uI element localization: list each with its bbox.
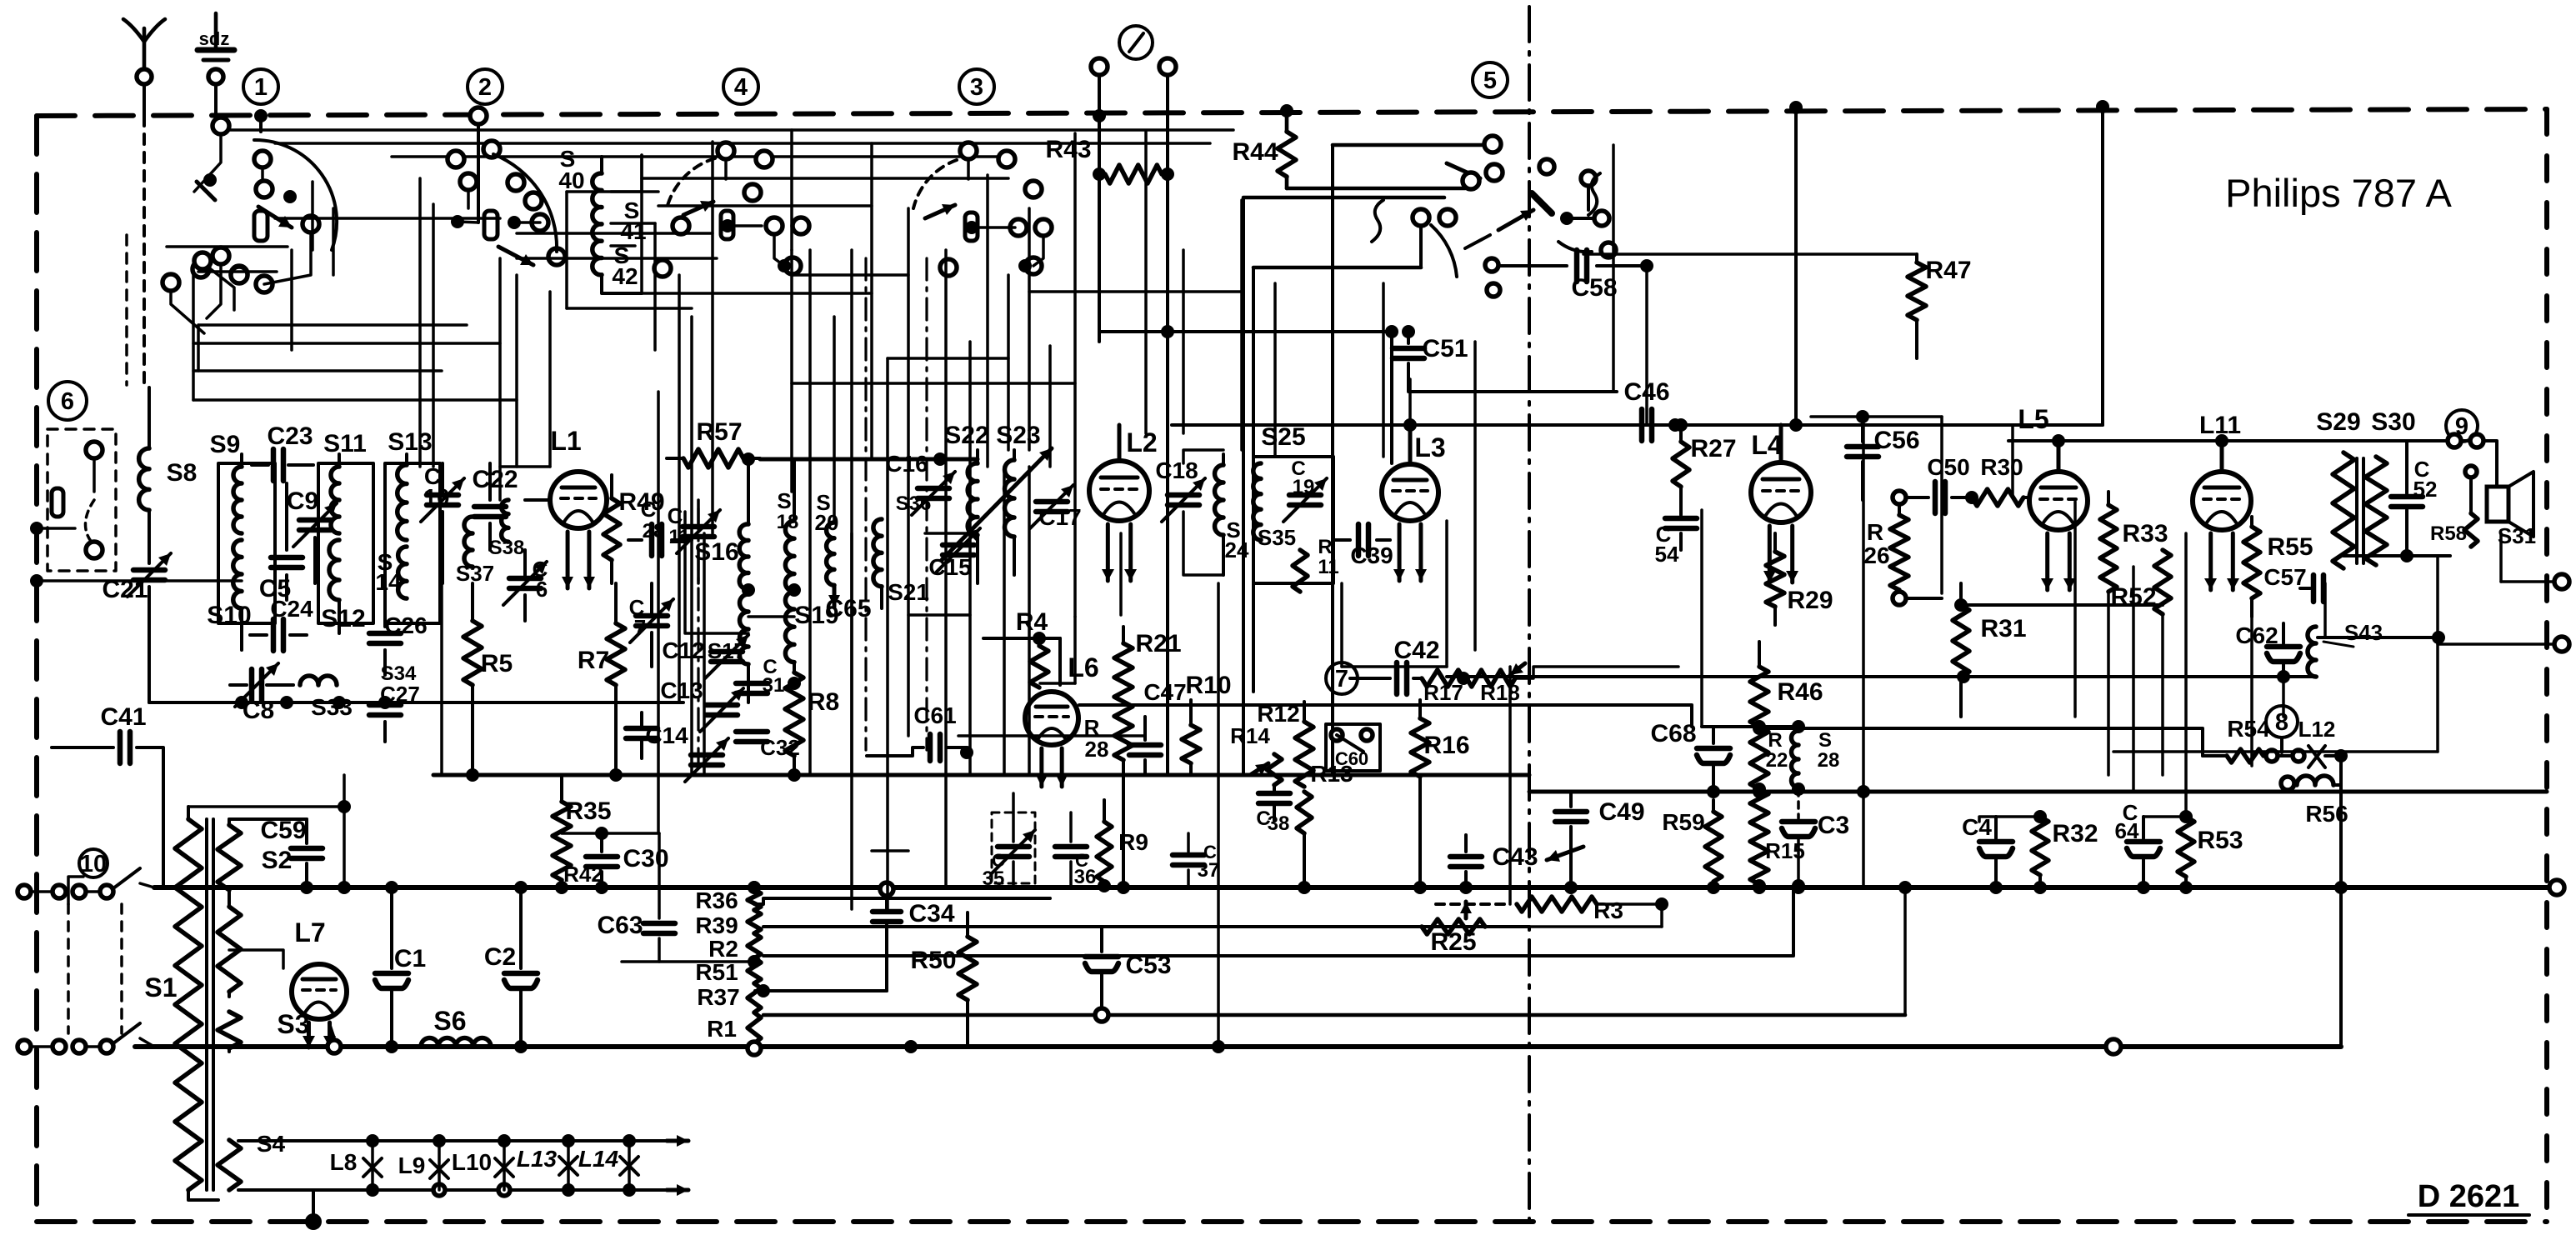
svg-text:C68: C68	[1650, 720, 1696, 747]
gang link c	[697, 508, 699, 762]
svg-text:5: 5	[1483, 67, 1497, 94]
wire run h20	[2501, 580, 2562, 583]
svg-text:19: 19	[1293, 476, 1315, 498]
svg-text:6: 6	[61, 388, 74, 415]
node 2 marker	[468, 69, 503, 104]
capacitor C22	[488, 463, 492, 500]
svg-text:R16: R16	[1423, 732, 1469, 759]
capacitor C19	[1289, 492, 1321, 498]
wire run h28	[193, 342, 500, 345]
wire HT bus	[154, 885, 2557, 890]
node 1 marker	[243, 69, 278, 104]
svg-text:R30: R30	[1980, 454, 2023, 480]
wire gnd bus	[135, 1044, 2113, 1049]
wire r18 out	[1515, 667, 1678, 678]
svg-text:R9: R9	[1118, 829, 1148, 855]
svg-text:L14: L14	[578, 1146, 619, 1172]
svg-text:2: 2	[478, 74, 492, 101]
node 8 marker	[2266, 706, 2298, 737]
svg-text:C61: C61	[913, 702, 956, 728]
wire run v15	[907, 208, 910, 736]
svg-text:L7: L7	[294, 917, 325, 947]
wire run v63	[1028, 467, 1031, 775]
capacitor C43	[1464, 835, 1468, 852]
mains terminals bottom	[18, 1040, 31, 1053]
capacitor C15	[943, 542, 974, 548]
wire run v54	[432, 204, 435, 467]
wire run v35	[1612, 145, 1615, 392]
resistor R56	[2281, 777, 2294, 790]
rotary switch S1b rotor	[484, 211, 498, 239]
wire sw3 link2	[1033, 236, 1043, 266]
svg-text:52: 52	[2413, 477, 2438, 502]
lamp L8	[371, 1141, 374, 1190]
svg-text:C57: C57	[2263, 564, 2306, 590]
tube L1	[550, 472, 607, 528]
wire run h16	[1040, 682, 1075, 685]
svg-text:C41: C41	[100, 703, 146, 731]
rotary switch S1a contacts	[213, 117, 229, 134]
svg-text:54: 54	[1655, 542, 1679, 567]
transformer S1 core	[205, 819, 208, 1190]
resistor R49	[610, 475, 613, 498]
svg-text:64: 64	[2115, 818, 2139, 843]
shield box S9 S10	[218, 463, 275, 623]
wire node1 drop	[259, 116, 263, 132]
svg-text:S16: S16	[694, 538, 738, 566]
svg-text:28: 28	[643, 520, 665, 542]
switch S1f box	[48, 429, 116, 571]
capacitor C34	[885, 889, 888, 908]
svg-text:C2: C2	[484, 943, 516, 971]
wire run h5	[792, 273, 908, 277]
wire L1 grid	[525, 498, 550, 502]
svg-text:R21: R21	[1135, 630, 1181, 657]
resistor R29	[1773, 533, 1777, 552]
wire sw2 link2	[467, 190, 470, 208]
wire run v16	[944, 250, 948, 886]
wire gnd return	[2339, 756, 2343, 1047]
capacitor C66	[626, 726, 658, 732]
svg-text:C58: C58	[1571, 274, 1617, 302]
resistor R4	[1038, 638, 1041, 646]
wire run h30	[193, 398, 517, 402]
wire run v2	[498, 258, 502, 500]
antenna	[143, 28, 147, 70]
wire tap r51	[755, 989, 887, 992]
svg-text:C9: C9	[287, 487, 318, 515]
wire run v8	[711, 142, 714, 533]
svg-text:C42: C42	[1393, 637, 1439, 664]
svg-text:24: 24	[1225, 537, 1249, 562]
svg-text:S36: S36	[896, 492, 932, 515]
svg-text:C53: C53	[1125, 952, 1171, 979]
resistor R21	[1122, 627, 1125, 643]
svg-text:C51: C51	[1422, 335, 1468, 362]
coil S40 S41 S42	[593, 173, 602, 275]
wire run h11	[500, 465, 550, 468]
svg-text:7: 7	[634, 615, 646, 640]
svg-text:C49: C49	[1598, 798, 1644, 826]
coil S24	[1222, 454, 1225, 465]
capacitor C23	[252, 463, 268, 467]
wire run h19	[2438, 642, 2562, 646]
capacitor C38	[1258, 791, 1290, 797]
wire sw2 link1	[514, 221, 540, 224]
wire tap r2 long	[763, 886, 1793, 956]
svg-text:R18: R18	[1480, 680, 1520, 705]
svg-text:L6: L6	[1068, 652, 1098, 682]
wire run v43	[2161, 614, 2164, 775]
wire run h3	[275, 217, 500, 220]
resistor R57	[667, 457, 683, 460]
wire run v44	[2250, 617, 2253, 766]
svg-text:7: 7	[1335, 666, 1348, 692]
capacitor C1	[390, 887, 393, 968]
svg-text:10: 10	[80, 851, 107, 877]
wire run v64	[2132, 567, 2135, 792]
wire sw5 top rail	[1333, 143, 1489, 147]
svg-text:S25: S25	[1261, 423, 1305, 451]
resistor R17	[1422, 670, 1463, 687]
svg-text:1: 1	[254, 74, 268, 101]
svg-text:R14: R14	[1230, 723, 1270, 748]
coil S13	[405, 454, 408, 465]
svg-text:S17: S17	[708, 638, 746, 663]
wire L7 out	[329, 1023, 334, 1047]
resistor R5	[471, 583, 474, 621]
svg-text:18: 18	[777, 511, 799, 533]
wire run v4	[548, 292, 552, 467]
wire avc rail	[1079, 705, 1692, 727]
svg-text:C16: C16	[885, 451, 928, 477]
resistor R33	[2107, 492, 2110, 505]
wire run v57	[653, 223, 657, 350]
wire tap r36	[754, 898, 1050, 904]
wire sw5 r44 rail	[1287, 187, 1465, 191]
svg-text:R57: R57	[696, 418, 742, 446]
capacitor C18	[1168, 492, 1199, 498]
circuit 8 row	[2203, 754, 2227, 757]
capacitor C52	[2405, 441, 2408, 493]
resistor R16	[1418, 700, 1422, 718]
coil S9	[240, 454, 243, 467]
wire run h31	[1811, 415, 1942, 418]
wire run h14	[908, 613, 970, 617]
transformer S2 winding	[228, 819, 231, 825]
node 10 marker	[79, 849, 108, 877]
capacitor C58	[1500, 264, 1567, 267]
svg-text:R44: R44	[1232, 138, 1278, 166]
node 7 marker	[1326, 662, 1358, 694]
capacitor C61	[867, 747, 923, 756]
svg-text:S37: S37	[456, 561, 494, 586]
svg-text:8: 8	[2275, 709, 2288, 736]
resistor R8	[785, 672, 803, 756]
node 9 marker	[2446, 410, 2478, 442]
wire run v27	[1240, 200, 1243, 450]
resistor R32	[2032, 817, 2048, 875]
svg-text:S: S	[777, 488, 791, 513]
wire run v5	[657, 392, 660, 833]
svg-text:R3: R3	[1593, 897, 1623, 923]
resistor R15	[1750, 789, 1768, 884]
coil S23	[1013, 450, 1016, 460]
svg-text:C15: C15	[928, 554, 971, 580]
rotary switch S1a arc	[254, 140, 337, 250]
svg-text:S: S	[1818, 729, 1832, 752]
capacitor C49	[1569, 793, 1573, 807]
transformer S3 winding	[218, 1012, 241, 1048]
svg-text:R58: R58	[2430, 522, 2467, 545]
resistor R37	[748, 983, 761, 1012]
node 5 marker	[1473, 62, 1508, 97]
svg-text:22: 22	[1766, 749, 1788, 772]
svg-text:L10: L10	[452, 1149, 492, 1175]
wire run h27	[198, 323, 467, 327]
tube L2	[1089, 461, 1149, 521]
svg-text:R: R	[1768, 729, 1782, 752]
wire run v38	[1862, 417, 1865, 886]
svg-text:C62: C62	[2235, 622, 2278, 648]
wire run h24	[517, 257, 717, 260]
capacitor C9	[299, 517, 331, 523]
wire sw3 drop	[967, 159, 970, 179]
inductor L12	[2263, 754, 2290, 757]
capacitor C13	[706, 702, 738, 708]
wire s1 top	[188, 805, 344, 808]
svg-text:S12: S12	[321, 605, 365, 632]
rotary switch S1c contacts	[718, 142, 734, 159]
wire run v47	[2499, 533, 2503, 582]
wire sw6 entry	[37, 527, 75, 530]
tube L3	[1382, 464, 1438, 521]
wire c63 base	[622, 960, 754, 963]
terminal b	[1159, 58, 1176, 75]
wire run v11	[833, 317, 836, 522]
transformer S29 S30	[2333, 452, 2354, 568]
resistor R53	[2178, 817, 2194, 877]
wire run v18	[986, 175, 989, 467]
wire l4 top	[1794, 107, 1798, 425]
wire left block base	[242, 701, 683, 704]
wire out top	[2008, 439, 2417, 442]
svg-text:C34: C34	[908, 900, 954, 927]
svg-text:R35: R35	[565, 797, 611, 825]
capacitor C5	[285, 483, 288, 550]
wire run v20	[1028, 208, 1031, 450]
tube L7	[292, 964, 347, 1019]
resistor R7	[614, 583, 618, 623]
svg-text:S4: S4	[257, 1131, 286, 1157]
svg-text:R27: R27	[1690, 435, 1736, 462]
svg-text:C50: C50	[1927, 454, 1969, 480]
svg-text:C59: C59	[260, 817, 306, 844]
wire run v24	[1144, 132, 1148, 433]
svg-text:C23: C23	[267, 422, 313, 450]
switch S5b	[113, 1023, 140, 1043]
gang link a	[864, 258, 867, 750]
capacitor C26	[383, 583, 387, 627]
box c18 s24	[1183, 450, 1223, 463]
svg-text:S33: S33	[311, 694, 353, 720]
resistor R10	[1189, 700, 1193, 725]
wire run v56	[640, 155, 643, 293]
resistor R35	[560, 775, 563, 802]
mains pilot symbol	[1119, 26, 1153, 59]
svg-text:R53: R53	[2197, 827, 2243, 854]
rotary switch S1c rotor	[721, 211, 733, 239]
rotary switch S1e rotor	[1532, 193, 1552, 213]
svg-text:R8: R8	[808, 688, 839, 716]
wire run v14	[886, 358, 889, 909]
svg-text:R54: R54	[2227, 716, 2270, 742]
wire run v40	[1940, 417, 1943, 593]
wire run v7	[690, 317, 693, 775]
svg-text:42: 42	[612, 263, 638, 289]
svg-text:S9: S9	[210, 431, 241, 458]
choke S6	[421, 1038, 491, 1047]
svg-text:S34: S34	[381, 662, 417, 685]
resistor R46	[1758, 642, 1761, 667]
svg-text:D 2621: D 2621	[2418, 1179, 2520, 1214]
svg-text:C47: C47	[1143, 679, 1186, 705]
node 4 marker	[723, 69, 758, 104]
capacitor C10	[427, 492, 458, 498]
tube L4	[1751, 462, 1811, 522]
capacitor C54	[1679, 510, 1683, 515]
wire run h32	[748, 615, 794, 618]
wire run v49	[197, 325, 200, 371]
capacitor C64	[2142, 817, 2145, 838]
earth terminal	[214, 13, 218, 48]
resistor R25	[1422, 919, 1485, 934]
wire run v42	[2107, 592, 2110, 775]
wire s22 s23 arrow	[942, 448, 1052, 560]
wire run v48	[192, 272, 195, 400]
svg-text:R4: R4	[1016, 608, 1048, 636]
wire run h22	[642, 177, 1008, 180]
wire sw1 drop1	[207, 264, 221, 318]
svg-text:L3: L3	[1414, 432, 1445, 462]
svg-text:S43: S43	[2344, 620, 2383, 645]
wire run h23	[167, 245, 288, 248]
rotary switch S1a rotor	[254, 211, 268, 241]
wire fb right	[2318, 636, 2438, 639]
wire run h7	[567, 307, 692, 310]
resistor R2	[748, 933, 761, 958]
wire out contacts	[2417, 439, 2447, 442]
capacitor C62	[2282, 623, 2285, 643]
svg-text:R46: R46	[1777, 678, 1823, 706]
wire run v46	[2436, 556, 2439, 752]
svg-text:S38: S38	[489, 537, 525, 559]
svg-text:C3: C3	[1818, 812, 1849, 839]
svg-text:L1: L1	[550, 426, 581, 456]
wire run h1	[567, 190, 658, 193]
rotary switch S1d contacts	[960, 142, 977, 159]
svg-text:C: C	[668, 503, 683, 528]
capacitor C12	[711, 649, 743, 655]
wire run v25	[1182, 250, 1185, 433]
svg-text:6: 6	[536, 577, 548, 602]
resistor R12	[1303, 702, 1306, 722]
wire run v23	[1119, 533, 1123, 615]
resistor R43	[1105, 165, 1162, 183]
capacitor C30	[600, 833, 603, 852]
wire lamp rail bottom	[238, 1188, 667, 1192]
switch S1e blade a	[1486, 164, 1503, 181]
svg-text:C1: C1	[394, 945, 426, 972]
svg-text:R: R	[1318, 536, 1332, 558]
wire run v19	[1007, 275, 1010, 450]
svg-text:L4: L4	[1751, 430, 1783, 460]
wire run v36	[1645, 266, 1648, 425]
wire top bus c	[392, 155, 1008, 158]
wire run v66	[2073, 502, 2077, 717]
svg-text:S8: S8	[167, 459, 198, 487]
wire avc h	[1702, 725, 1798, 728]
resistor R55	[2250, 517, 2253, 527]
svg-text:C63: C63	[597, 912, 643, 939]
wire r4 top	[983, 637, 1060, 640]
lamp L13	[567, 1141, 570, 1190]
wire lamp rail top	[238, 1139, 667, 1142]
svg-text:R33: R33	[2122, 520, 2168, 547]
rotary switch S1b contacts	[483, 141, 500, 157]
svg-text:3: 3	[970, 74, 983, 101]
capacitor C11	[683, 524, 714, 530]
capacitor C7	[636, 613, 668, 619]
wire antenna lead	[143, 85, 146, 116]
capacitor C57	[2300, 587, 2310, 590]
wire run v28	[1273, 283, 1277, 457]
svg-text:C43: C43	[1492, 843, 1538, 871]
svg-text:36: 36	[1074, 866, 1097, 888]
resistor R1	[748, 1012, 761, 1043]
resistor R26	[1893, 491, 1906, 504]
wire sw1 link1	[194, 134, 221, 192]
capacitor C68	[1712, 727, 1715, 743]
svg-text:R17: R17	[1423, 680, 1463, 705]
resistor R51	[748, 958, 761, 983]
svg-text:S6: S6	[433, 1006, 466, 1036]
capacitor C17	[1036, 499, 1068, 505]
wire left base drop	[149, 701, 242, 704]
svg-text:C26: C26	[384, 612, 427, 638]
svg-text:C65: C65	[825, 595, 871, 622]
wire sw4 feed1	[724, 159, 728, 179]
capacitor C39	[1333, 538, 1350, 542]
wire run h13	[144, 579, 242, 582]
svg-text:R36: R36	[695, 887, 738, 913]
svg-text:R29: R29	[1787, 587, 1833, 614]
coil S21	[873, 519, 882, 587]
rotary switch S1e arc	[1431, 225, 1457, 277]
coil S25	[1253, 463, 1261, 540]
wire run v51	[311, 182, 314, 250]
rotary switch S1d rotor	[965, 212, 978, 241]
wire terminal a drop	[1098, 75, 1101, 342]
resistor R31	[1959, 583, 1963, 605]
svg-text:10: 10	[423, 484, 449, 510]
wire run v26	[1217, 583, 1220, 1047]
wire run v3	[515, 275, 518, 467]
node 6 marker	[48, 382, 87, 420]
transformer S25 box	[1253, 457, 1333, 583]
resistor R36	[748, 890, 761, 910]
terminal a	[1091, 58, 1108, 75]
